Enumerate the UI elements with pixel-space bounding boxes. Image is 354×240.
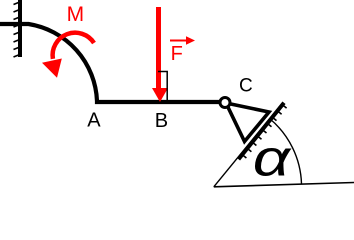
inclined surface thick line xyxy=(239,103,285,160)
force F arrow (red, downward) xyxy=(156,7,161,89)
vector overbar arrow above F xyxy=(170,40,188,42)
wall hatch ticks xyxy=(14,3,19,58)
moment arc M (red) xyxy=(53,33,94,59)
wall (fixed support) vertical line xyxy=(18,0,22,57)
svg-text:F: F xyxy=(171,43,183,65)
thin incline extension line to angle vertex xyxy=(214,104,282,187)
svg-text:A: A xyxy=(87,110,101,132)
force F arrowhead xyxy=(152,88,168,102)
roller support triangle at C xyxy=(226,103,269,142)
svg-text:C: C xyxy=(239,76,253,97)
svg-text:α: α xyxy=(253,130,292,186)
incline hatch ticks xyxy=(241,104,287,158)
thin horizontal ground line xyxy=(214,183,354,187)
right-angle mark at B xyxy=(158,72,167,101)
svg-text:M: M xyxy=(67,3,85,26)
moment arrowhead xyxy=(42,59,62,78)
angle arc alpha xyxy=(270,119,302,184)
pin circle at C xyxy=(220,98,230,108)
svg-text:B: B xyxy=(155,110,168,132)
curved beam from wall to A then straight beam A-B-C xyxy=(0,24,222,102)
